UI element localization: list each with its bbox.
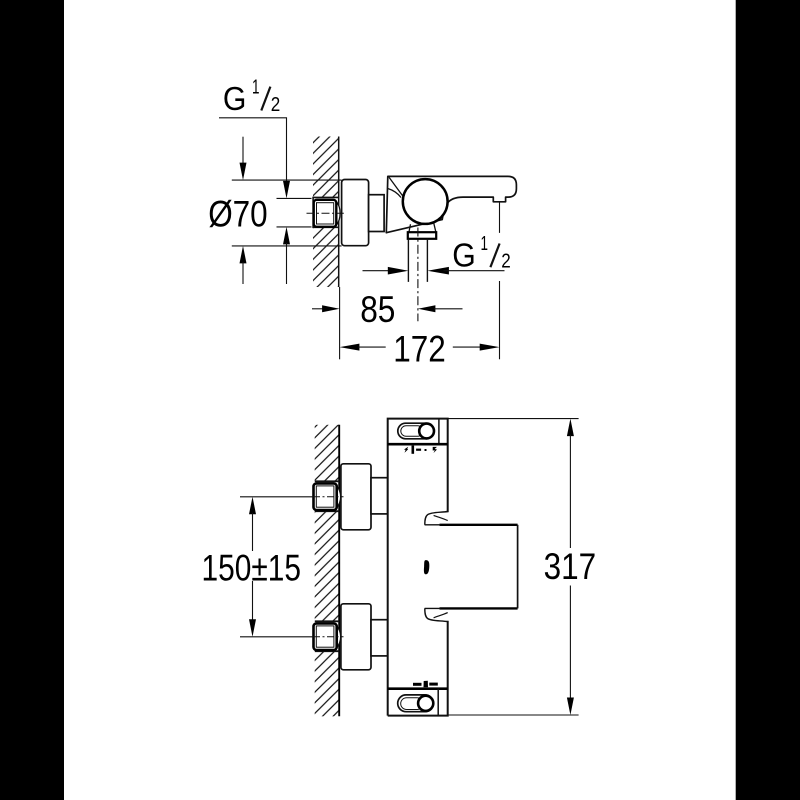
upper union nut with arc	[314, 483, 341, 510]
left black letterbox bar	[0, 0, 64, 800]
recess notch white cutout around union nut	[311, 197, 339, 227]
outlet pipe	[408, 239, 427, 282]
Ø70 extension lines	[232, 179, 342, 181]
right black letterbox bar	[736, 0, 800, 800]
172 right extension line (aerator center), with gap at G1/2 text	[499, 202, 501, 359]
upper recess outline	[315, 481, 339, 511]
317 top extension line	[448, 418, 579, 420]
85 dimension	[312, 308, 324, 310]
svg-text:G: G	[223, 81, 247, 118]
svg-text:317: 317	[544, 546, 597, 587]
top pill slider	[398, 423, 434, 439]
bottom cap inner vertical	[437, 689, 439, 716]
middle extension (mixing chamber)	[425, 512, 518, 622]
lever cap circle (bold)	[403, 179, 448, 224]
317 bottom extension line	[448, 714, 579, 716]
union nut centerline (dash-dot)	[307, 212, 344, 214]
172 dimension line with arrows	[340, 344, 360, 351]
svg-text:G: G	[452, 237, 476, 274]
upper flange	[341, 464, 371, 530]
bottom cap bold separator	[388, 687, 448, 690]
lower recess outline	[315, 621, 339, 651]
svg-text:150±15: 150±15	[202, 547, 302, 588]
union nut (top diagram) with arc flange	[314, 200, 340, 227]
Ø70 bottom arrow	[240, 246, 247, 264]
top cap bold separator	[388, 443, 448, 446]
lower curl transition	[425, 608, 448, 621]
G 1/2 underline and leader with down arrow to nut top	[219, 118, 287, 181]
svg-text:1: 1	[252, 76, 260, 99]
svg-text:85: 85	[360, 289, 395, 330]
outlet pipe centerline (dash-dot)	[417, 228, 419, 322]
nut bottom extension line	[277, 226, 312, 228]
body top-left wedge lines	[388, 177, 403, 197]
top markings row	[404, 446, 437, 454]
down arrowhead at nut top ext line	[283, 181, 290, 199]
bottom pill slider	[398, 695, 434, 712]
G 1/2 outlet leader arrows at pipe	[363, 270, 393, 272]
thermostat body outline	[388, 419, 448, 716]
recess notch outline (top diagram)	[313, 197, 339, 227]
svg-text:172: 172	[393, 329, 446, 370]
upper stub	[371, 478, 388, 514]
svg-text:Ø70: Ø70	[208, 194, 268, 235]
lower union nut with arc	[314, 623, 341, 650]
wall hatch strip (bottom diagram)	[313, 425, 340, 717]
mixer body with spout (top diagram)	[386, 176, 516, 232]
up arrowhead at nut bottom + tail	[283, 227, 290, 245]
top cap inner vertical	[438, 419, 440, 445]
upper recess white cutout	[313, 481, 340, 511]
backnut (bold)	[408, 232, 436, 239]
escutcheon (wall flange)	[342, 180, 369, 246]
lower recess white cutout	[313, 621, 340, 651]
wall face extension line down to 172 dimension	[339, 287, 341, 359]
svg-text:2: 2	[501, 249, 511, 272]
wall face line (top diagram)	[338, 137, 340, 288]
bottom markings row	[413, 681, 438, 688]
upper curl transition	[425, 512, 448, 525]
upper centerline (dash-dot)	[240, 496, 313, 498]
wall hatch strip (top diagram)	[311, 137, 339, 288]
317 dimension line	[567, 419, 574, 437]
wall face line (bottom diagram)	[338, 425, 340, 717]
G 1/2 label (spout outlet)	[452, 232, 511, 274]
shower outlet dark blob	[424, 560, 429, 574]
connector block between escutcheon and body	[369, 195, 385, 232]
svg-text:2: 2	[271, 93, 281, 116]
G 1/2 label (top left)	[223, 76, 280, 119]
svg-text:1: 1	[481, 232, 489, 255]
Ø70 top arrow	[242, 137, 244, 163]
nut top extension line	[277, 197, 312, 199]
lower stub	[371, 620, 388, 656]
150±15 dimension line	[249, 497, 256, 515]
lower flange	[341, 604, 371, 670]
lower centerline (dash-dot)	[240, 636, 313, 638]
neck below circle	[409, 223, 436, 232]
